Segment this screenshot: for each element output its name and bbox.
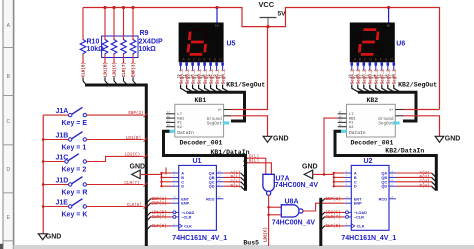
svg-text:Ground: Ground bbox=[378, 117, 394, 122]
svg-text:J1C: J1C bbox=[56, 155, 69, 162]
ground arrow for U2 data inputs bbox=[302, 164, 334, 179]
svg-text:Bus5: Bus5 bbox=[243, 240, 259, 247]
ground arrow for U1 data inputs bbox=[130, 164, 162, 179]
wires U2 data inputs from ground bbox=[333, 172, 345, 188]
svg-text:C(U): C(U) bbox=[419, 180, 429, 185]
svg-text:QC: QC bbox=[209, 180, 215, 184]
bus main (switch/control bus) bbox=[85, 85, 146, 246]
svg-text:CLR(7): CLR(7) bbox=[124, 181, 139, 186]
bus KB1/SegOut bbox=[187, 92, 245, 121]
svg-text:ENP: ENP bbox=[181, 202, 189, 206]
wires U2 control taps bbox=[321, 197, 344, 229]
svg-text:DataIn: DataIn bbox=[349, 130, 366, 136]
svg-text:CLR(7): CLR(7) bbox=[326, 215, 341, 220]
svg-text:CLR(7): CLR(7) bbox=[152, 215, 167, 220]
wires U2 outputs to KB2 DataIn bus bbox=[396, 171, 436, 191]
svg-text:~CLR: ~CLR bbox=[354, 215, 364, 219]
svg-text:SegOut: SegOut bbox=[378, 122, 394, 126]
svg-text:B(L): B(L) bbox=[249, 159, 259, 164]
svg-text:D(U): D(U) bbox=[419, 184, 429, 189]
svg-text:~LOAD: ~LOAD bbox=[181, 211, 194, 215]
svg-text:A(L): A(L) bbox=[230, 171, 240, 176]
svg-text:ENP(3): ENP(3) bbox=[152, 202, 167, 207]
svg-text:~CLR: ~CLR bbox=[181, 215, 191, 219]
svg-text:V+: V+ bbox=[389, 109, 393, 113]
svg-text:QC: QC bbox=[381, 180, 387, 184]
wires U1 outputs to DataIn bus bbox=[223, 171, 245, 191]
svg-text:U2: U2 bbox=[364, 158, 373, 165]
decoder KB2 bbox=[338, 97, 403, 147]
svg-text:R10: R10 bbox=[87, 39, 100, 46]
bus U2 control (Bus5 riser) bbox=[319, 198, 322, 246]
svg-text:5V: 5V bbox=[278, 10, 287, 17]
svg-text:RCO: RCO bbox=[379, 197, 387, 201]
svg-text:Key = R: Key = R bbox=[62, 189, 88, 196]
svg-text:KB2/SegOut: KB2/SegOut bbox=[398, 82, 437, 89]
svg-text:1A: 1A bbox=[386, 24, 390, 28]
svg-text:U8A: U8A bbox=[285, 199, 299, 206]
wire KB1 Ground bbox=[231, 116, 268, 137]
svg-text:CLK(8): CLK(8) bbox=[152, 224, 167, 229]
svg-text:ENP(3): ENP(3) bbox=[152, 197, 167, 202]
wires U1 control taps from bus bbox=[147, 197, 172, 229]
svg-text:LD1(B): LD1(B) bbox=[126, 136, 141, 141]
wire KB2 V+ bbox=[403, 109, 440, 111]
wire U7A output down to bus bbox=[264, 195, 270, 246]
svg-text:J1E: J1E bbox=[56, 200, 69, 207]
svg-text:J1D: J1D bbox=[56, 178, 69, 185]
svg-text:CLR(7): CLR(7) bbox=[122, 62, 127, 77]
svg-text:15: 15 bbox=[208, 74, 212, 78]
svg-text:10: 10 bbox=[349, 74, 353, 78]
junction dots on top rail bbox=[103, 6, 390, 28]
svg-text:14: 14 bbox=[373, 74, 377, 78]
counter U1 bbox=[172, 158, 228, 242]
switch J1D bbox=[43, 177, 147, 197]
wire KB1 pin stub red drop bbox=[165, 168, 167, 175]
svg-text:10kΩ: 10kΩ bbox=[139, 46, 157, 53]
svg-text:R9: R9 bbox=[140, 30, 149, 37]
svg-text:Decoder_001: Decoder_001 bbox=[351, 140, 394, 147]
svg-text:11: 11 bbox=[355, 74, 359, 78]
svg-text:74HC161N_4V_1: 74HC161N_4V_1 bbox=[172, 235, 227, 242]
svg-text:LD1(B): LD1(B) bbox=[152, 211, 167, 216]
svg-text:12: 12 bbox=[190, 74, 194, 78]
svg-text:ABCDEFGH: ABCDEFGH bbox=[183, 57, 225, 61]
wire KB1 V+ to VCC bbox=[231, 27, 268, 110]
svg-text:U1: U1 bbox=[193, 158, 202, 165]
svg-text:13: 13 bbox=[196, 74, 200, 78]
svg-text:16: 16 bbox=[385, 74, 389, 78]
svg-text:1A: 1A bbox=[215, 24, 219, 28]
svg-text:QB: QB bbox=[209, 176, 215, 180]
svg-text:KB1/DataIn: KB1/DataIn bbox=[211, 149, 250, 156]
svg-text:LD2(C): LD2(C) bbox=[125, 153, 140, 158]
svg-text:10: 10 bbox=[178, 74, 182, 78]
svg-text:~LOAD: ~LOAD bbox=[354, 211, 367, 215]
svg-text:C: C bbox=[181, 180, 184, 184]
svg-text:2X4DIP: 2X4DIP bbox=[139, 39, 163, 46]
svg-text:B(U): B(U) bbox=[419, 175, 429, 180]
svg-text:C(L): C(L) bbox=[230, 180, 240, 185]
decoder KB1 bbox=[166, 97, 231, 147]
svg-text:U5: U5 bbox=[227, 41, 236, 48]
switch J1A bbox=[43, 107, 147, 127]
svg-text:ENP(3): ENP(3) bbox=[128, 111, 143, 116]
svg-text:D: D bbox=[181, 185, 184, 189]
display U5 pins to bus bbox=[178, 62, 230, 92]
svg-text:VCC: VCC bbox=[259, 0, 275, 9]
svg-text:D: D bbox=[6, 167, 10, 173]
svg-text:J1A: J1A bbox=[56, 108, 69, 115]
svg-text:KB1: KB1 bbox=[195, 97, 207, 104]
svg-text:74HC161N_4V_1: 74HC161N_4V_1 bbox=[341, 235, 396, 242]
svg-text:C: C bbox=[354, 180, 357, 184]
svg-text:17: 17 bbox=[391, 74, 395, 78]
svg-text:B: B bbox=[354, 176, 357, 180]
svg-text:15: 15 bbox=[379, 74, 383, 78]
resistor R10 bbox=[80, 8, 104, 86]
svg-text:GND: GND bbox=[445, 136, 461, 143]
svg-text:#2: #2 bbox=[349, 126, 354, 130]
svg-text:74HC00N_4V: 74HC00N_4V bbox=[272, 220, 316, 227]
svg-text:KB2/DataIn: KB2/DataIn bbox=[385, 147, 424, 154]
svg-text:D(L): D(L) bbox=[230, 184, 240, 189]
svg-text:Key = 1: Key = 1 bbox=[62, 144, 87, 151]
svg-text:QB: QB bbox=[381, 176, 387, 180]
nand gate U7A bbox=[263, 174, 318, 195]
switch J1B bbox=[43, 132, 147, 152]
svg-text:LD2(C): LD2(C) bbox=[113, 62, 118, 77]
svg-text:QD: QD bbox=[381, 185, 387, 189]
svg-text:Decoder_001: Decoder_001 bbox=[180, 140, 223, 147]
nand U7A input taps from DataIn bus bbox=[244, 154, 272, 174]
wire KB2 Ground bbox=[403, 116, 440, 137]
svg-text:CLK(8): CLK(8) bbox=[82, 62, 87, 77]
svg-text:U6: U6 bbox=[396, 41, 405, 48]
resistor pack R9 bbox=[102, 8, 163, 86]
svg-text:B(L): B(L) bbox=[230, 175, 240, 180]
wire U8A output to U2 ENP bbox=[302, 203, 344, 211]
svg-text:CLK: CLK bbox=[184, 224, 192, 228]
svg-text:B: B bbox=[181, 176, 184, 180]
svg-text:Key = 2: Key = 2 bbox=[62, 166, 87, 173]
wires U1 data inputs from ground bbox=[160, 172, 171, 188]
svg-text:11: 11 bbox=[184, 74, 188, 78]
svg-text:#2: #2 bbox=[177, 126, 182, 130]
svg-text:V+: V+ bbox=[218, 109, 222, 113]
nand gate U8A bbox=[269, 199, 316, 227]
wire VCC top rail bbox=[83, 8, 440, 110]
sheet border zone column bbox=[0, 0, 14, 249]
svg-text:12: 12 bbox=[361, 74, 365, 78]
svg-text:17: 17 bbox=[220, 74, 224, 78]
svg-text:ENP(3): ENP(3) bbox=[326, 197, 341, 202]
svg-text:QA: QA bbox=[381, 172, 387, 176]
svg-text:A: A bbox=[354, 172, 357, 176]
svg-text:CLK: CLK bbox=[357, 224, 365, 228]
ground (right) bbox=[435, 136, 460, 143]
svg-text:ENT: ENT bbox=[181, 197, 189, 201]
svg-text:QD: QD bbox=[209, 185, 215, 189]
svg-text:DataIn: DataIn bbox=[177, 130, 194, 136]
svg-text:KB2: KB2 bbox=[367, 97, 379, 104]
svg-text:Key = E: Key = E bbox=[62, 120, 88, 127]
svg-text:LD2(C): LD2(C) bbox=[326, 211, 341, 216]
svg-text:13: 13 bbox=[367, 74, 371, 78]
svg-text:14: 14 bbox=[202, 74, 206, 78]
power VCC bbox=[259, 0, 287, 27]
svg-text:D(L): D(L) bbox=[249, 154, 259, 159]
bus KB2/SegOut bbox=[358, 92, 416, 121]
bottom gray band bbox=[14, 245, 474, 249]
svg-text:ENP(3): ENP(3) bbox=[132, 62, 137, 77]
svg-text:C: C bbox=[6, 119, 10, 125]
svg-text:ABCDEFGH: ABCDEFGH bbox=[354, 57, 396, 61]
svg-text:LD1(B): LD1(B) bbox=[104, 62, 109, 77]
svg-text:A: A bbox=[181, 172, 184, 176]
switch J1E bbox=[43, 199, 147, 219]
wire KB2 pin to U2 gnd wire bbox=[324, 118, 338, 174]
counter U2 bbox=[341, 158, 396, 242]
svg-text:D: D bbox=[354, 185, 357, 189]
svg-text:KB1/SegOut: KB1/SegOut bbox=[226, 82, 265, 89]
ground (bottom left) bbox=[38, 233, 61, 240]
svg-text:Key = K: Key = K bbox=[62, 211, 88, 218]
ground (left of center) bbox=[263, 136, 288, 143]
switch rail bbox=[42, 115, 45, 234]
svg-text:GND: GND bbox=[302, 164, 318, 171]
svg-text:GND: GND bbox=[273, 136, 289, 143]
svg-text:GND: GND bbox=[46, 233, 62, 240]
bus KB2/DataIn bbox=[335, 131, 436, 191]
seven-segment display U5 bbox=[179, 9, 236, 63]
svg-text:Ground: Ground bbox=[207, 117, 223, 122]
bus KB1/DataIn bbox=[164, 131, 246, 191]
svg-text:A(U): A(U) bbox=[419, 171, 429, 176]
display U6 pins to bus bbox=[349, 62, 401, 92]
svg-text:QA: QA bbox=[209, 172, 215, 176]
switch J1C bbox=[43, 153, 147, 174]
svg-text:CLK(8): CLK(8) bbox=[127, 203, 142, 208]
svg-text:ENP: ENP bbox=[354, 202, 362, 206]
svg-text:CLK(8): CLK(8) bbox=[326, 224, 341, 229]
svg-text:ENT: ENT bbox=[354, 197, 362, 201]
svg-text:SegOut: SegOut bbox=[207, 122, 223, 126]
svg-text:16: 16 bbox=[214, 74, 218, 78]
svg-text:GND: GND bbox=[130, 164, 146, 171]
svg-text:J1B: J1B bbox=[56, 133, 69, 140]
seven-segment display U6 bbox=[350, 9, 406, 63]
svg-text:RCO: RCO bbox=[206, 197, 214, 201]
svg-text:LD2(C): LD2(C) bbox=[264, 227, 269, 242]
svg-text:74HC00N_4V: 74HC00N_4V bbox=[275, 182, 319, 189]
